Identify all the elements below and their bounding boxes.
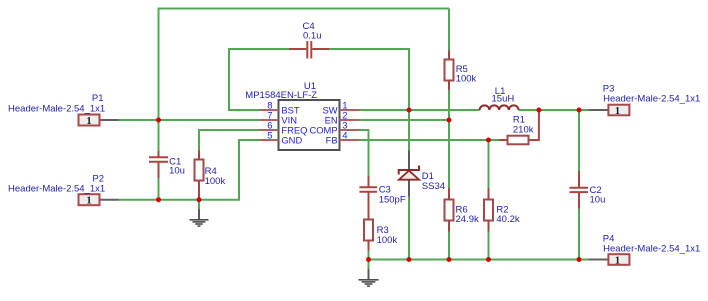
wire R2 bottom segment — [488, 231, 490, 260]
op-amp U1 MP1584EN-LF-Z — [245, 81, 339, 150]
svg-text:FB: FB — [326, 134, 338, 145]
svg-text:4: 4 — [342, 131, 347, 142]
resistor R5 — [445, 51, 477, 91]
wire COMP row — [359, 129, 369, 131]
wire VIN row from P1 to pin7 — [118, 119, 260, 121]
wire D1 bottom segment to rail — [408, 196, 410, 260]
wire left vertical VIN — [158, 8, 160, 121]
wire C2 top segment — [578, 109, 580, 171]
pin 6 FREQ — [260, 121, 308, 136]
wire R2 top segment from FB — [488, 139, 490, 188]
wire COMP vertical to C3 — [368, 129, 370, 176]
svg-text:Header-Male-2.54_1x1: Header-Male-2.54_1x1 — [603, 94, 700, 105]
wire top rail VIN to R5 — [159, 8, 450, 10]
node SW/D1 junction — [407, 108, 412, 113]
svg-text:210k: 210k — [513, 125, 534, 136]
svg-text:GND: GND — [281, 134, 302, 145]
svg-text:24.9k: 24.9k — [456, 214, 479, 225]
pin 7 VIN — [260, 111, 298, 126]
wire D1 top segment from SW — [408, 109, 410, 151]
wire R5 bottom segment — [448, 90, 450, 121]
connector P4 — [589, 233, 701, 266]
svg-text:100k: 100k — [377, 235, 398, 246]
wire R3 bottom to rail — [368, 250, 370, 260]
node L1/R1 junction — [536, 108, 541, 113]
svg-text:Header-Male-2.54_1x1: Header-Male-2.54_1x1 — [603, 244, 700, 255]
wire FREQ row — [199, 129, 260, 131]
capacitor C1 — [149, 151, 185, 178]
ground symbol bottom rail — [359, 269, 379, 286]
svg-text:MP1584EN-LF-Z: MP1584EN-LF-Z — [245, 90, 317, 101]
capacitor C3 — [359, 176, 405, 220]
wire C2 bottom segment — [578, 208, 580, 260]
wire C4 top horizontal left — [228, 48, 290, 50]
svg-text:1: 1 — [615, 106, 620, 117]
svg-text:10u: 10u — [169, 165, 185, 176]
wire C1 bottom segment — [158, 178, 160, 200]
resistor R2 — [484, 188, 520, 232]
pin 4 FB — [326, 131, 359, 146]
wire EN row to R5 bottom — [359, 119, 449, 121]
svg-text:Header-Male-2.54_1x1: Header-Male-2.54_1x1 — [8, 184, 105, 195]
node FB/R1/R2 junction — [486, 138, 491, 143]
svg-text:1: 1 — [615, 255, 620, 266]
inductor L1 — [480, 86, 519, 110]
wire ground stub under R4 junction — [198, 200, 200, 210]
svg-text:5: 5 — [267, 131, 272, 142]
wire P2 rail — [118, 199, 240, 201]
resistor R4 — [195, 151, 226, 200]
wire C4 top horizontal right — [329, 48, 411, 50]
node R2 bottom junction — [486, 257, 491, 262]
ground symbol under R4 — [190, 209, 209, 226]
node EN/R5/R6 junction — [447, 118, 452, 123]
node R4/ground junction — [197, 197, 202, 202]
connector P3 — [589, 83, 701, 116]
wire C4 right vertical to SW — [408, 48, 410, 110]
wire L1 to C2 node — [519, 109, 589, 111]
connector P1 — [8, 93, 118, 127]
wire R6 bottom segment — [448, 231, 450, 260]
svg-text:1: 1 — [86, 196, 91, 207]
pin 5 GND — [260, 131, 303, 146]
wire ground stub below bottom rail — [368, 260, 370, 270]
pin 8 BST — [260, 101, 300, 116]
wire C1 top segment — [158, 119, 160, 151]
svg-text:150pF: 150pF — [379, 194, 406, 205]
svg-text:0.1u: 0.1u — [303, 30, 322, 41]
wire C4 left vertical — [228, 49, 230, 111]
capacitor C2 — [570, 171, 606, 209]
connector P2 — [8, 173, 118, 206]
svg-text:100k: 100k — [205, 176, 226, 187]
wire GND pin5 horizontal — [239, 139, 260, 141]
node ground rail left junction — [366, 257, 371, 262]
resistor R1 — [499, 110, 539, 144]
node C2 bottom junction — [577, 257, 582, 262]
wire GND pin5 vertical — [238, 139, 240, 200]
resistor R6 — [445, 188, 479, 232]
wire SW row to L1 — [359, 109, 480, 111]
wire R5 top segment — [448, 9, 450, 52]
pin 2 EN — [325, 111, 359, 126]
svg-text:15uH: 15uH — [492, 94, 515, 105]
resistor R3 — [364, 220, 397, 251]
node R6 bottom junction — [447, 257, 452, 262]
pin 1 SW — [322, 101, 359, 116]
node P1/C1 junction — [156, 118, 161, 123]
pin 3 COMP — [309, 121, 359, 136]
node C1 bottom junction — [156, 197, 161, 202]
node C2 top junction — [577, 108, 582, 113]
svg-text:100k: 100k — [456, 74, 477, 85]
wire FB row to R1 — [359, 139, 499, 141]
wire R6 top segment from EN — [448, 119, 450, 188]
wire bottom ground rail — [369, 259, 589, 261]
svg-text:40.2k: 40.2k — [496, 214, 519, 225]
svg-text:Header-Male-2.54_1x1: Header-Male-2.54_1x1 — [8, 103, 105, 114]
svg-text:1: 1 — [86, 116, 91, 127]
wire BST row pin8 — [229, 109, 260, 111]
node D1 bottom junction — [407, 257, 412, 262]
svg-text:SS34: SS34 — [422, 181, 445, 192]
capacitor C4 — [289, 21, 329, 59]
svg-text:10u: 10u — [590, 195, 606, 206]
diode D1 SS34 — [399, 151, 445, 197]
wire FREQ vertical to R4 — [198, 129, 200, 151]
